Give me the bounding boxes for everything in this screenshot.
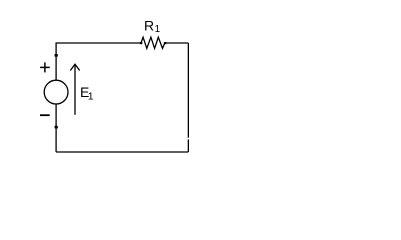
wire bottom segment bbox=[56, 151, 188, 153]
node tick source bottom terminal bbox=[55, 126, 58, 129]
voltage source E1 circle bbox=[44, 80, 68, 104]
plus sign polarity mark bbox=[40, 62, 50, 72]
label R1 bbox=[144, 18, 161, 35]
wire left-top segment with top-left corner bbox=[56, 43, 141, 80]
node tick resistor right terminal bbox=[164, 42, 166, 44]
node tick source top terminal bbox=[55, 54, 58, 57]
svg-text:1: 1 bbox=[155, 24, 161, 35]
E1 current direction arrow bbox=[70, 64, 79, 115]
svg-text:1: 1 bbox=[88, 91, 94, 103]
node tick resistor left terminal bbox=[140, 42, 142, 44]
wire right lower segment bbox=[187, 139, 189, 152]
label E1 bbox=[80, 84, 94, 103]
resistor R1 bbox=[141, 37, 165, 48]
minus sign polarity mark bbox=[40, 114, 50, 116]
wire top-right segment bbox=[165, 42, 189, 44]
wire right upper segment bbox=[187, 43, 189, 138]
svg-text:R: R bbox=[144, 18, 154, 34]
wire left-bottom segment bbox=[55, 104, 57, 152]
